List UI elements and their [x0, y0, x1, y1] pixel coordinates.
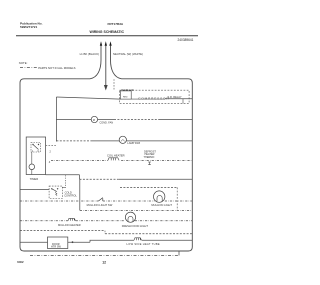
svg-text:COIL HEATER: COIL HEATER [107, 154, 125, 158]
svg-text:LOW SIDE HEAT TUBE: LOW SIDE HEAT TUBE [127, 242, 160, 246]
wire drop to lower mullion rung [79, 179, 81, 210]
elbow drop wire [79, 175, 81, 180]
wire rung compressor circuit [56, 97, 120, 99]
door heater switch box [48, 237, 68, 249]
cold control contacts [51, 188, 52, 189]
dashed wire rung optional right [104, 231, 106, 234]
power cord ground wire with cabinet arrow [105, 46, 107, 86]
wire relay to neutral bus [165, 98, 193, 100]
wire rung defrost return [80, 178, 120, 180]
fresh food light bulb [125, 212, 135, 222]
svg-text:COND. FAN: COND. FAN [100, 121, 114, 124]
dashed capillary line cold control [65, 175, 67, 187]
svg-text:12: 12 [102, 260, 106, 264]
wire box out with junction [68, 241, 90, 243]
svg-text:PARTS NOT IN ALL MODELS: PARTS NOT IN ALL MODELS [38, 66, 75, 70]
dashed wire rung upper mullion [120, 186, 177, 188]
condenser fan motor [91, 116, 97, 122]
compressor dashed enclosure [120, 90, 190, 103]
dashed wire rung lower mullion [80, 209, 193, 211]
wire cold control feed [20, 188, 49, 190]
svg-text:RED: RED [123, 97, 128, 99]
power cord L1 wire [90, 46, 101, 79]
dashed wire top border to compressor shell [113, 79, 115, 90]
svg-text:MULLION LIGHT: MULLION LIGHT [151, 203, 172, 207]
door light switch [99, 198, 103, 201]
svg-text:MULLION HEATER: MULLION HEATER [58, 223, 81, 227]
svg-text:HTR SW: HTR SW [51, 246, 62, 249]
freezer light bulb [119, 136, 126, 143]
svg-text:MULLION LIGHT SW: MULLION LIGHT SW [87, 203, 113, 207]
svg-text:NEUTRAL (W) (WHITE): NEUTRAL (W) (WHITE) [113, 52, 143, 56]
wire stub below frame [178, 251, 180, 256]
wire timer to elbow [46, 174, 80, 176]
svg-text:L1 BK (BLACK): L1 BK (BLACK) [80, 52, 99, 56]
coil heater resistor [108, 158, 119, 161]
svg-text:6402: 6402 [17, 260, 24, 264]
dashed cut line below frame [30, 255, 179, 257]
svg-text:NOTE:: NOTE: [19, 61, 28, 65]
neutral bus: top-right border, right side, bottom-right [90, 79, 192, 251]
cold control dashed box [49, 186, 62, 198]
wire rung freezer light [56, 140, 90, 142]
wire fan to neutral bus [114, 119, 160, 121]
defrost timer outer box [26, 137, 45, 175]
svg-text:FRT17B3A: FRT17B3A [108, 22, 124, 26]
overload protector [121, 91, 132, 99]
mullion heater resistor [68, 218, 76, 220]
svg-text:LAMP FRZ: LAMP FRZ [127, 141, 140, 145]
dashed vertical link right [176, 187, 178, 210]
wire rung defrost heater circuit (dash-dot) [51, 159, 108, 161]
wire rung condenser fan [56, 119, 91, 121]
svg-text:240389641: 240389641 [178, 38, 194, 42]
low side heat tube resistor [134, 238, 142, 240]
svg-text:THERMO: THERMO [144, 156, 155, 159]
dashed wire rung optional left [20, 230, 105, 232]
timer motor [29, 164, 35, 170]
wire drop from compressor rung to defrost timer [55, 97, 57, 142]
dashed link timer to drop wire [46, 144, 57, 146]
svg-text:5995271721: 5995271721 [20, 25, 37, 29]
power cord neutral wire [111, 46, 122, 79]
svg-text:TIMER: TIMER [30, 177, 38, 181]
defrost thermostat symbol [148, 162, 151, 165]
svg-text:M: M [93, 119, 95, 122]
wire relay to shell edge [182, 99, 184, 104]
timer switch blade [33, 145, 39, 150]
svg-text:FRESH FOOD LIGHT: FRESH FOOD LIGHT [122, 224, 149, 228]
defrost timer contact box [31, 143, 41, 153]
svg-text:WIRING SCHEMATIC: WIRING SCHEMATIC [90, 30, 125, 34]
wire rung mullion light (dash-dot) [20, 200, 99, 202]
wire rung bottom heater circuit [20, 241, 48, 243]
power cord plug prong arrows [100, 41, 112, 46]
header rule [16, 35, 198, 37]
wire rung fresh food light (dash-dot) [20, 220, 68, 222]
svg-text:CONTROL: CONTROL [64, 193, 77, 197]
mullion light bulb [154, 191, 165, 202]
L1 bus: top-left border and left side [20, 79, 90, 251]
wire cold control out [62, 186, 66, 188]
wire overload to relay [131, 98, 165, 100]
